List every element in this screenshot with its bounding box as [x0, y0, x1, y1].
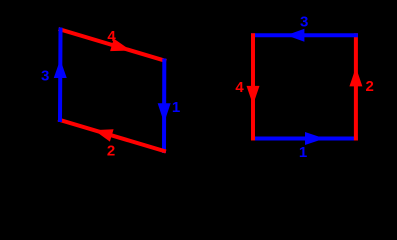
square edge 1 (bottom, blue) [253, 137, 356, 141]
arrowhead square edge 1 (points right) [305, 132, 325, 145]
svg-text:4: 4 [107, 28, 116, 45]
svg-text:2: 2 [366, 78, 374, 95]
arrowhead square edge 4 (points down) [247, 86, 260, 105]
svg-text:2: 2 [107, 142, 115, 159]
square edge 4 (left, red) [251, 35, 255, 138]
arrowhead edge 2 (points left-up) [94, 129, 114, 141]
parallelogram edge 3 (left, blue) [58, 30, 63, 121]
parallelogram edge 4 (top, red) [61, 30, 165, 61]
svg-text:4: 4 [235, 79, 244, 96]
parallelogram edge 2 (bottom, red) [60, 120, 164, 151]
parallelogram edge 1 (right, blue) [162, 61, 166, 152]
svg-text:3: 3 [41, 67, 49, 84]
svg-text:1: 1 [299, 144, 307, 161]
square edge 3 (top, blue) [253, 33, 356, 37]
arrowhead edge 3 (points up) [54, 60, 67, 79]
svg-text:3: 3 [300, 14, 308, 31]
arrowhead edge 4 (points right-down) [110, 39, 131, 52]
svg-text:1: 1 [172, 99, 180, 116]
arrowhead square edge 3 (points left) [286, 29, 304, 42]
arrowhead square edge 2 (points up) [349, 67, 362, 86]
square edge 2 (right, red) [354, 35, 358, 138]
arrowhead edge 1 (points down) [158, 103, 171, 123]
